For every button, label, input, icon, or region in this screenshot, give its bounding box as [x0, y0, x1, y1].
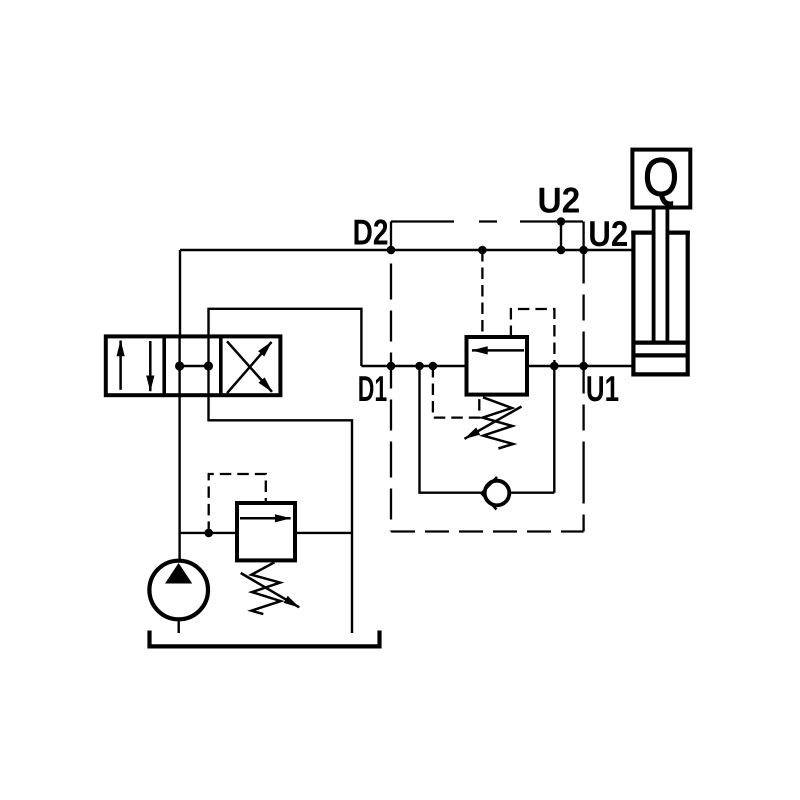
svg-text:Q: Q — [643, 148, 679, 208]
counterbalance valve CB1 internal flow arrow (points left) — [472, 349, 524, 352]
junction dot right edge on top line — [579, 246, 588, 255]
pump P1 circle — [149, 561, 208, 620]
counterbalance valve CB1 adjustment arrow — [465, 407, 522, 439]
svg-text:U1: U1 — [586, 368, 619, 409]
junction dot D2 on top line — [387, 246, 396, 255]
wire port B riser: valve top right to y309 then over and down to D1 line — [209, 309, 362, 366]
manifold enclosure left dashed edge — [390, 222, 392, 532]
directional valve DV1 right cell crossed arrow down — [227, 341, 272, 392]
wire port A line through valve center cell down to pump — [178, 336, 180, 561]
directional valve DV1 right cell crossed arrow up — [227, 342, 272, 393]
cylinder bottom cap — [633, 372, 687, 376]
svg-text:U2: U2 — [588, 213, 628, 254]
pilot line dashed from top line to counterbalance valve top — [481, 250, 483, 337]
node closed port left in valve center cell — [175, 361, 184, 370]
junction dot pilot tap on top line — [478, 246, 487, 255]
svg-text:D1: D1 — [358, 368, 387, 409]
wire relief branch right: relief valve box to tank return — [295, 532, 352, 534]
wire main U1 line from counterbalance box to cylinder — [527, 365, 633, 367]
counterbalance valve CB1 body — [467, 337, 528, 395]
pilot line dashed external: counterbalance top right loop to U1 — [511, 309, 555, 366]
junction dot pilot tap on D1 line — [429, 362, 438, 371]
manifold enclosure top dashed edge — [391, 220, 584, 222]
directional valve DV1 cell divider left — [162, 336, 166, 395]
directional valve DV1 left cell down arrow — [149, 341, 152, 391]
wire riser from directional valve port A to top line — [179, 250, 181, 336]
wire relief branch left: pump line to relief valve box — [180, 532, 237, 534]
wire U2 port stub — [560, 222, 562, 251]
cylinder barrel right wall — [686, 231, 690, 377]
tank symbol — [150, 631, 380, 647]
cylinder barrel left wall — [631, 231, 635, 377]
cylinder piston line lower — [633, 353, 687, 357]
wire pump suction to tank — [177, 620, 179, 634]
cylinder rod left line — [652, 206, 656, 343]
pump relief valve RV1 body — [237, 503, 295, 560]
svg-text:U2: U2 — [538, 180, 581, 221]
directional valve DV1 outer body — [106, 336, 281, 395]
wire top main line D2-U2 (y=250) — [180, 249, 633, 251]
counterbalance valve CB1 spring — [483, 397, 513, 448]
load box Q — [632, 150, 690, 208]
junction dot left edge on D1 line — [387, 362, 396, 371]
manifold enclosure bottom dashed edge — [391, 530, 584, 532]
pump relief valve RV1 spring — [251, 562, 280, 614]
wire port B line through valve center cell — [207, 336, 209, 395]
pump relief valve RV1 internal flow arrow (points right) — [240, 517, 291, 520]
check valve CV1 circle — [485, 481, 510, 506]
pump P1 flow triangle — [165, 563, 192, 584]
wire main D1 line from corner to counterbalance box — [361, 365, 466, 367]
svg-text:D2: D2 — [353, 212, 389, 253]
pilot line dashed: D1 tap down and right to spring chamber — [433, 366, 479, 418]
junction dot U2 stub bottom — [557, 246, 566, 255]
wire check valve branch left: D1 down and right to check valve — [420, 366, 483, 493]
junction dot check branch on D1 line — [415, 362, 424, 371]
node closed port right in valve center cell — [204, 361, 213, 370]
junction dot U2 stub top — [557, 217, 566, 226]
junction dot pump relief pilot tap — [204, 529, 213, 538]
directional valve DV1 cell divider right — [219, 336, 223, 395]
junction dot right edge on U1 line — [579, 362, 588, 371]
pump relief valve RV1 adjustment arrow — [241, 573, 300, 607]
wire tank return: valve bottom right down, right, down to tank — [209, 395, 353, 633]
directional valve DV1 left cell up arrow — [119, 341, 122, 390]
cylinder barrel top edge right segment — [667, 231, 689, 235]
check valve CV1 seat — [482, 477, 498, 510]
junction dot check/pilot return on U1 line — [550, 362, 559, 371]
manifold enclosure right dashed edge — [582, 222, 584, 532]
cylinder barrel top edge left segment — [631, 231, 653, 235]
cylinder rod right line — [666, 206, 670, 343]
directional valve DV1 center cell closed-port bar — [180, 365, 209, 368]
wire check valve branch right: check valve right, up to U1 line — [509, 366, 554, 493]
pilot line dashed: pump relief remote pilot loop — [209, 474, 266, 533]
cylinder piston line upper — [633, 341, 687, 345]
